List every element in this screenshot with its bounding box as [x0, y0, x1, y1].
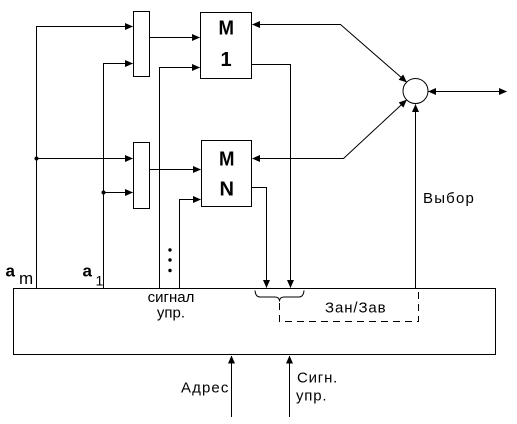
svg-text:1: 1	[220, 49, 231, 71]
module MN	[202, 141, 252, 207]
wire control signal to M1	[160, 68, 200, 289]
ellipsis dot 1	[168, 248, 171, 251]
svg-text:Зан/Зав: Зан/Зав	[325, 300, 387, 317]
module M1	[201, 13, 252, 79]
control unit box	[14, 289, 496, 355]
svg-text:m: m	[19, 269, 33, 288]
svg-text:упр.: упр.	[157, 305, 185, 322]
svg-text:a: a	[6, 262, 16, 281]
svg-text:1: 1	[96, 273, 104, 289]
svg-text:M: M	[219, 149, 235, 171]
wire a_m bus	[37, 27, 133, 289]
svg-text:M: M	[219, 17, 235, 39]
wire selector to MN	[253, 100, 407, 159]
register RG2	[134, 143, 150, 209]
junction on a_1 line	[102, 191, 106, 195]
svg-text:Выбор: Выбор	[423, 190, 475, 207]
dashed box Зан/Зав	[280, 292, 419, 322]
register RG1	[134, 12, 150, 77]
wire Сигн.упр. input	[289, 356, 291, 417]
wire Выбор select line	[415, 105, 417, 289]
wire Адрес input	[231, 356, 233, 417]
svg-text:Сигн.: Сигн.	[297, 370, 338, 387]
ellipsis dot 2	[168, 258, 171, 261]
brace under M outputs	[255, 291, 304, 302]
wire bidirectional data out	[429, 91, 507, 93]
wire a_1 bus	[104, 64, 133, 289]
svg-text:N: N	[220, 179, 235, 201]
wire selector to M1	[253, 25, 407, 83]
svg-text:упр.: упр.	[296, 388, 327, 405]
junction on a_m line	[35, 157, 39, 161]
svg-text:Адрес: Адрес	[181, 380, 229, 397]
wire M1 output to control unit	[252, 65, 291, 288]
wire MN output to control unit	[252, 188, 267, 288]
wire a_1 branch to RG2	[104, 192, 133, 194]
selector node circle	[403, 79, 428, 104]
wire RG2 to MN	[150, 169, 201, 171]
svg-text:a: a	[83, 262, 93, 281]
wire a_m branch to RG2	[37, 158, 133, 160]
svg-text:сигнал: сигнал	[148, 289, 195, 306]
ellipsis dot 3	[168, 269, 171, 272]
wire RG1 to M1	[150, 37, 200, 39]
wire control signal to MN	[180, 200, 201, 289]
